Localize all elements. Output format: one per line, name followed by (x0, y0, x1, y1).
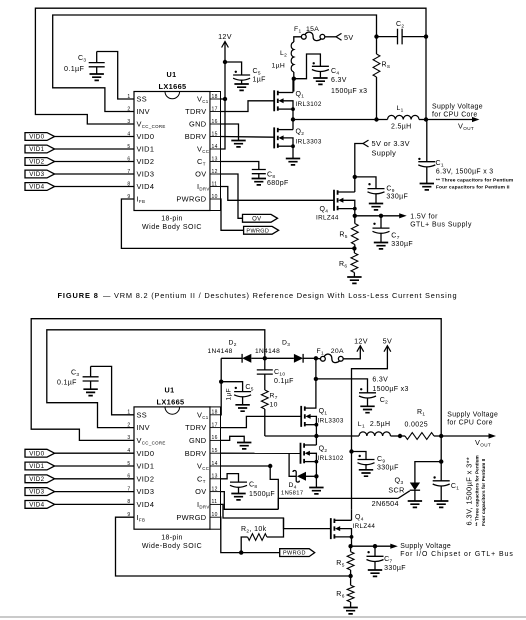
svg-text:VID1: VID1 (137, 145, 155, 154)
flag VID1 (bottom) (25, 462, 55, 470)
svg-text:18-pin: 18-pin (161, 216, 183, 223)
wire VID1 to pin 5 (bottom) (55, 465, 134, 467)
transistor Q2 IRL3102 low-side MOSFET (bottom) (301, 443, 305, 464)
svg-text:15A: 15A (306, 26, 319, 33)
svg-text:5V: 5V (344, 33, 354, 42)
svg-text:VID4: VID4 (29, 184, 44, 191)
svg-text:Supply: Supply (372, 149, 397, 158)
ground below C3 (90, 74, 104, 80)
svg-text:VID1: VID1 (137, 462, 155, 471)
svg-text:PWRGD: PWRGD (176, 513, 206, 522)
svg-text:VID2: VID2 (137, 157, 155, 166)
op-amp U1 controller IC LX1665 body (top schematic) (134, 92, 210, 211)
svg-text:Supply Voltage: Supply Voltage (400, 543, 451, 550)
flag VID4 (25, 183, 55, 191)
wire outer feedback loop VCC_CORE sense (pin 3 to VOUT) (35, 8, 426, 124)
flag VID4 (bottom) (25, 501, 55, 509)
node junction VOUT (424, 117, 428, 121)
wire VID0 to pin 4 (55, 136, 134, 138)
svg-text:15: 15 (212, 131, 218, 137)
inductor L1 2.5uH output choke (388, 115, 420, 119)
svg-text:OV: OV (252, 216, 261, 222)
svg-text:Wide-Body SOIC: Wide-Body SOIC (142, 543, 202, 550)
resistor R5 feedback divider (354, 216, 356, 224)
resistor R6 divider (bottom) (350, 576, 352, 585)
svg-text:VID1: VID1 (29, 146, 44, 153)
wire VOUT arrow (426, 119, 473, 121)
wire BDRV pin 15 to Q2 gate (221, 136, 275, 139)
wire PWRGD pin 10 down to flag (bottom) (221, 517, 280, 552)
svg-text:IRL3303: IRL3303 (296, 139, 322, 146)
svg-text:12V: 12V (354, 337, 368, 346)
flag VID2 (25, 158, 55, 166)
wire Q4 drain (354, 191, 356, 193)
capacitor C2 sense (377, 36, 398, 38)
svg-text:VID3: VID3 (137, 170, 155, 179)
fuse F1 15A in 5V line (294, 37, 302, 42)
svg-text:VID1: VID1 (29, 463, 44, 470)
svg-text:Supply Voltage: Supply Voltage (432, 104, 483, 111)
transistor Q4 IRLZ44 linear regulator MOSFET (334, 190, 338, 211)
node junction C1 / SCR (bottom) (439, 459, 443, 463)
svg-text:Supply Voltage: Supply Voltage (447, 412, 498, 419)
wire C5 branch (bottom) (221, 382, 242, 392)
svg-text:SS: SS (137, 95, 148, 104)
node junction VOUT-side of C2 (424, 34, 428, 38)
svg-text:0.1µF: 0.1µF (274, 378, 294, 385)
wire CT pin 13 to C8 (221, 162, 259, 170)
node junction C2 branch (bottom) (314, 377, 318, 381)
flag PWRGD output (244, 226, 279, 234)
wire inner feedback loop INV sense (pin 2 to Rs/C2 node) (53, 15, 377, 112)
capacitor C9 330uF (368, 183, 370, 185)
node junction C7 branch (379, 214, 383, 218)
controller IC U1 LX1665 body (bottom schematic) (134, 407, 210, 529)
transistor Q1 IRL3303 high-side MOSFET (bottom) (301, 406, 305, 427)
resistor R1 0.0025 current sense (405, 433, 434, 440)
wire inner feedback loop INV sense to D2/D3 node (bottom) (47, 330, 265, 428)
svg-text:1N4148: 1N4148 (255, 348, 280, 355)
wire IO supply output arrow (351, 545, 391, 547)
resistor R6 feedback divider (353, 248, 355, 253)
svg-text:VID3: VID3 (137, 487, 155, 496)
12V supply arrow (bottom) (357, 346, 364, 352)
svg-text:6.3V, 1500µF x 3**: 6.3V, 1500µF x 3** (465, 457, 474, 526)
node junction C5 / D2 / VC1 (219, 380, 223, 384)
svg-text:— VRM 8.2 (Pentium II / Deschu: — VRM 8.2 (Pentium II / Deschutes) Refer… (103, 291, 457, 300)
svg-text:5V or 3.3V: 5V or 3.3V (372, 139, 410, 148)
svg-text:330µF: 330µF (391, 241, 413, 248)
svg-text:18: 18 (212, 410, 218, 416)
wire 5V/3.3V to Q4 drain (355, 144, 363, 193)
wire OV pin 12 to OV flag (221, 174, 243, 218)
capacitor C3 0.1uF soft-start (96, 52, 98, 63)
capacitor C2 6.3V 1500uF x3 (bottom) (360, 388, 362, 390)
wire VID3 to pin 7 (55, 173, 134, 175)
capacitor C7 330uF (bottom) (374, 546, 376, 556)
ground below C9 (369, 204, 383, 210)
inductor L1 2.5uH output choke (bottom) (359, 432, 391, 436)
ground below R6 (347, 277, 361, 283)
svg-text:INV: INV (137, 423, 150, 432)
svg-text:0.1µF: 0.1µF (64, 64, 85, 73)
capacitor C8 1500uF timing (bottom) (230, 481, 247, 483)
flag VID3 (bottom) (25, 488, 55, 496)
svg-text:IRLZ44: IRLZ44 (353, 523, 376, 530)
node switch node junction (292, 109, 294, 119)
svg-text:2.5µH: 2.5µH (391, 124, 412, 131)
svg-text:6.3V, 1500µF x 3: 6.3V, 1500µF x 3 (436, 168, 494, 175)
svg-text:1µF: 1µF (226, 388, 233, 401)
svg-text:BDRV: BDRV (185, 449, 207, 458)
svg-text:VID2: VID2 (29, 476, 44, 483)
svg-text:11: 11 (212, 499, 218, 505)
node junction R5/R6/I_FB (352, 246, 356, 250)
ground below C2 (bottom) (360, 406, 374, 412)
node junction D2/D3/C10/INV (263, 356, 267, 360)
flag VID0 (bottom) (25, 449, 55, 457)
wire Q2 source to ground (bottom) (315, 462, 317, 488)
svg-text:VID4: VID4 (137, 182, 155, 191)
svg-text:GND: GND (189, 120, 206, 129)
flag VID3 (25, 170, 55, 178)
svg-text:13: 13 (212, 474, 218, 480)
svg-text:11: 11 (212, 181, 218, 187)
svg-text:VID4: VID4 (29, 502, 44, 509)
svg-text:10: 10 (212, 512, 218, 518)
svg-text:VID0: VID0 (29, 134, 44, 141)
wire CT pin 13 to C8 (bottom) (221, 474, 239, 483)
svg-text:PWRGD: PWRGD (283, 551, 306, 557)
svg-text:18-pin: 18-pin (161, 535, 183, 542)
ground below C8 (252, 179, 266, 185)
ground below C5 (234, 84, 248, 90)
svg-text:10: 10 (270, 402, 278, 409)
wire SS pin 1 to C3 (97, 52, 134, 100)
wire I_DRV pin 11 to Q4 gate (bottom) (221, 504, 331, 528)
svg-text:1500µF: 1500µF (249, 491, 275, 498)
svg-text:OV: OV (195, 170, 206, 179)
svg-text:FIGURE 8: FIGURE 8 (58, 291, 99, 300)
ground below Q2 (286, 159, 300, 165)
wire GND pin 16 to ground (bottom) (221, 436, 245, 442)
wire VID2 to pin 6 (bottom) (55, 478, 134, 480)
ground below Q2 (bottom) (309, 488, 323, 494)
svg-text:GND: GND (189, 436, 206, 445)
svg-text:12V: 12V (218, 32, 232, 41)
capacitor C1 output 6.3V 1500uF x3 (426, 120, 428, 162)
wire Q1 drain to 12V rail (bottom) (315, 407, 318, 409)
fuse F1 20A in 12V line (316, 357, 321, 360)
node junction Rs / switch node (374, 117, 378, 121)
svg-text:VID2: VID2 (29, 159, 44, 166)
node junction 12V / VC1 (223, 97, 227, 101)
node junction 12V / C5 (223, 60, 227, 64)
svg-text:VID3: VID3 (29, 171, 44, 178)
svg-text:12: 12 (212, 169, 218, 175)
svg-text:5V: 5V (383, 337, 393, 346)
svg-text:PWRGD: PWRGD (176, 195, 206, 204)
svg-text:SS: SS (137, 410, 148, 419)
capacitor C7 330uF (380, 216, 382, 228)
svg-text:IRL3303: IRL3303 (318, 418, 344, 425)
svg-text:330µF: 330µF (386, 194, 408, 201)
wire I_FB pin 9 down to R5/R6 junction (bottom) (116, 517, 351, 576)
resistor R7 10 sense (264, 374, 266, 390)
wire PWRGD pin 10 to PWRGD flag (221, 199, 244, 230)
svg-text:Wide Body SOIC: Wide Body SOIC (142, 224, 202, 231)
wire Q2 source to ground (292, 146, 294, 158)
diode D3 1N4148 (265, 357, 294, 359)
wire 12V rail to VC1 pin 18 and VCC pin 14 (221, 42, 226, 150)
svg-text:1N4148: 1N4148 (208, 348, 233, 355)
thyristor Q3 SCR 2N6504 crowbar (410, 483, 420, 491)
svg-text:Four capacitors for Pentium II: Four capacitors for Pentium II (436, 184, 510, 190)
svg-text:IRL3102: IRL3102 (296, 101, 322, 108)
wire I_DRV pin 11 to Q4 gate (221, 187, 335, 201)
svg-text:PWRGD: PWRGD (246, 228, 269, 234)
svg-text:2.5µH: 2.5µH (370, 421, 391, 428)
5V supply arrow (bottom) (384, 346, 391, 352)
svg-text:18: 18 (212, 94, 218, 100)
svg-text:GTL+ Bus Supply: GTL+ Bus Supply (410, 222, 472, 229)
wire Q1 drain up to L2/C4 node (292, 79, 294, 93)
svg-text:VID0: VID0 (29, 450, 44, 457)
svg-text:12: 12 (212, 486, 218, 492)
node junction VOUT (bottom) (439, 434, 443, 438)
capacitor C5 1uF (bottom) (235, 387, 237, 389)
5V or 3.3V supply arrow (363, 140, 369, 147)
svg-text:VID0: VID0 (137, 132, 155, 141)
diode D2 1N4148 (221, 357, 242, 359)
svg-text:** Three capacitors for Pentiu: ** Three capacitors for Pentium (475, 455, 481, 526)
svg-text:1N5817: 1N5817 (281, 491, 303, 497)
wire 1.5V GTL+ output arrow (355, 215, 400, 217)
capacitor C9 330uF (bottom) (359, 455, 361, 457)
svg-text:6.3V: 6.3V (372, 377, 388, 384)
wire VID4 to pin 8 (55, 186, 134, 188)
flag OV output (243, 214, 278, 222)
svg-text:1µH: 1µH (272, 63, 286, 70)
wire C4 branch (294, 54, 321, 79)
svg-text:LX1665: LX1665 (157, 398, 185, 407)
svg-text:IRL3102: IRL3102 (318, 455, 344, 462)
transistor Q1 IRL3102 high-side MOSFET (274, 90, 278, 111)
svg-text:13: 13 (212, 156, 218, 162)
capacitor C4 6.3V 1500uF x3 (313, 62, 315, 64)
wire TDRV pin 17 to Q1 gate (221, 101, 275, 112)
ground below C8 (bottom) (231, 494, 245, 500)
svg-text:14: 14 (212, 461, 218, 467)
svg-text:16: 16 (212, 435, 218, 441)
wire VOUT arrow (bottom) (441, 435, 489, 437)
wire VID3 to pin 7 (bottom) (55, 491, 134, 493)
node junction C9 branch (353, 175, 357, 179)
svg-text:330µF: 330µF (384, 565, 406, 572)
wire Q2 drain up to switch node (bottom) (315, 436, 317, 445)
ground for GND pin (231, 141, 245, 147)
wire VID4 to pin 8 (bottom) (55, 503, 134, 505)
svg-text:BDRV: BDRV (185, 132, 207, 141)
svg-text:Four capacitors for Pentium II: Four capacitors for Pentium II (481, 459, 487, 526)
node junction D4 anode / Q2 source (314, 474, 318, 478)
wire to C5 (225, 62, 242, 75)
transistor Q4 IRLZ44 linear regulator MOSFET (bottom) (331, 518, 335, 539)
node junction L2 / C4 / Q1 drain (292, 77, 296, 81)
wire outer feedback loop VCC_CORE sense to VOUT (bottom) (31, 319, 441, 462)
svg-text:17: 17 (212, 422, 218, 428)
svg-text:OV: OV (195, 487, 206, 496)
node junction C7 branch (bottom) (373, 544, 377, 548)
wire OV pin 12 to SCR gate line (221, 492, 279, 510)
svg-text:14: 14 (212, 144, 218, 150)
svg-text:SCR: SCR (388, 486, 404, 495)
wire SS pin 1 to C3 (bottom) (91, 366, 134, 414)
svg-text:U1: U1 (167, 70, 177, 79)
capacitor C10 0.1uF sense (264, 358, 266, 370)
node junction Q4 source / IO output (351, 537, 353, 546)
wire C9 branch (355, 177, 376, 189)
svg-text:1.5V for: 1.5V for (410, 214, 438, 221)
flag VID0 (25, 133, 55, 141)
ground below SCR (408, 501, 422, 507)
wire C2 branch (bottom) (316, 379, 368, 393)
page bottom rule (0, 616, 526, 618)
wire switch node to L1 (293, 119, 388, 121)
wire VCC pin 14 to OV/SCR line (bottom) (221, 465, 271, 467)
svg-text:1µF: 1µF (253, 77, 266, 84)
resistor R5 divider (bottom) (350, 546, 352, 552)
svg-text:** Three capacitors for Pentiu: ** Three capacitors for Pentium (436, 177, 514, 183)
node junction Q4 source / 1.5V output (354, 209, 356, 216)
svg-text:INV: INV (137, 107, 150, 116)
wire Q4 drain up to 5V rail (bottom) (351, 509, 353, 520)
wire 12V rail down to Q1 drain (315, 358, 317, 408)
svg-text:for CPU Core: for CPU Core (432, 112, 478, 119)
wire to SCR Q3 (415, 462, 441, 483)
resistor R2 10k pull-up (241, 537, 247, 553)
capacitor C1 output (bottom) (440, 462, 442, 481)
node switch node junction (bottom) (315, 425, 317, 436)
ground for GND pin (bottom) (237, 443, 251, 449)
ground below C9 (bottom) (359, 470, 373, 476)
resistor Rs current sense (376, 37, 378, 54)
wire 5V to Q4 drain rail (352, 346, 388, 510)
svg-text:for CPU Core: for CPU Core (447, 420, 493, 427)
wire I_FB pin 9 down to R5/R6 junction (121, 199, 354, 248)
svg-text:1500µF x3: 1500µF x3 (372, 386, 408, 393)
svg-text:15: 15 (212, 448, 218, 454)
diode D4 1N5817 schottky (289, 453, 296, 476)
wire C9 branch (bottom) (352, 452, 367, 460)
wire D2 cathode to C5 node and VC1 pin 18 (220, 358, 223, 415)
svg-text:U1: U1 (165, 386, 175, 395)
svg-text:VID2: VID2 (137, 474, 155, 483)
wire GND pin 16 to ground (221, 124, 239, 141)
svg-text:IRLZ44: IRLZ44 (316, 215, 339, 222)
node junction C9 branch (bottom) (349, 449, 353, 453)
ground below C5 (bottom) (235, 405, 249, 411)
svg-text:2N6504: 2N6504 (372, 499, 399, 508)
svg-text:680pF: 680pF (267, 180, 289, 187)
wire switch node line (bottom) (265, 435, 359, 437)
node junction R5/R6/I_FB (bottom) (348, 574, 352, 578)
ground below C7 (bottom) (368, 570, 382, 576)
5V supply arrow (336, 33, 342, 40)
wire VID0 to pin 4 (bottom) (55, 452, 134, 454)
ground below C1 (420, 184, 434, 190)
ground below C4 (313, 78, 327, 84)
svg-text:0.1µF: 0.1µF (57, 380, 77, 387)
svg-text:1500µF x3: 1500µF x3 (331, 88, 367, 95)
inductor L2 1uH (291, 42, 294, 72)
svg-text:10: 10 (212, 194, 218, 200)
svg-text:VID3: VID3 (29, 489, 44, 496)
svg-text:VID4: VID4 (137, 500, 155, 509)
node junction fuse / 12V rail (314, 356, 318, 360)
ground below R6 (bottom) (343, 608, 357, 614)
transistor Q2 IRL3103 low-side MOSFET (274, 127, 278, 148)
node junction INV-side of C2 (374, 34, 378, 38)
capacitor C3 0.1uF soft-start (bottom) (90, 366, 92, 376)
svg-text:17: 17 (212, 106, 218, 112)
wire BDRV pin 15 to Q2 gate (bottom) (221, 452, 301, 454)
svg-text:TDRV: TDRV (185, 423, 206, 432)
ground below C1 (bottom) (434, 501, 448, 507)
wire VID1 to pin 5 (55, 148, 134, 150)
svg-text:20A: 20A (331, 348, 344, 355)
flag VID1 (25, 145, 55, 153)
svg-text:, 10k: , 10k (250, 526, 267, 533)
svg-text:VID0: VID0 (137, 449, 155, 458)
svg-text:330µF: 330µF (377, 465, 399, 472)
wire TDRV pin 17 to Q1 gate (bottom) (221, 416, 302, 427)
flag VID2 (bottom) (25, 475, 55, 483)
svg-text:16: 16 (212, 119, 218, 125)
ground below C3 (bottom) (83, 389, 97, 395)
svg-text:LX1665: LX1665 (159, 82, 187, 91)
svg-text:0.0025: 0.0025 (405, 422, 429, 429)
node junction R2 / PWRGD (239, 550, 243, 554)
wire VID2 to pin 6 (55, 161, 134, 163)
svg-text:TDRV: TDRV (185, 107, 206, 116)
node junction L1 / R1 (398, 434, 402, 438)
ground below C7 (374, 243, 388, 249)
capacitor C5 1uF (235, 71, 237, 73)
svg-text:6.3V: 6.3V (331, 77, 347, 84)
svg-text:For I/O Chipset or GTL+ Bus: For I/O Chipset or GTL+ Bus (400, 551, 514, 558)
flag PWRGD output (bottom) (280, 549, 315, 557)
wire Q2 drain up to switch node (292, 120, 294, 130)
capacitor C8 680pF timing (252, 170, 266, 174)
